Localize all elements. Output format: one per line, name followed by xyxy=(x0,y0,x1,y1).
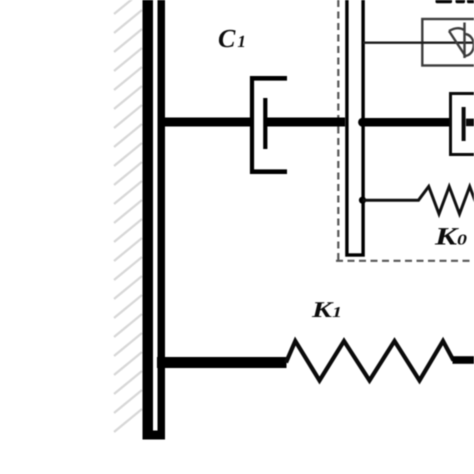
Bouc-Wen hysteresis symbol xyxy=(449,23,474,59)
spring K0 xyxy=(363,187,474,215)
rigid bar (internal node of model) xyxy=(347,0,363,255)
wall hatching xyxy=(114,0,142,432)
svg-text:C1: C1 xyxy=(218,24,246,53)
Bouc-Wen element box xyxy=(422,19,474,66)
damper C0 (piston, partially visible) xyxy=(464,107,474,141)
wire: rigid bar to Bouc-Wen box xyxy=(363,42,474,44)
node: junction dot for spring K0 xyxy=(359,197,366,204)
wire: wall to damper C1 xyxy=(161,118,253,127)
wire: rigid bar to damper C0 box xyxy=(361,118,450,127)
damper C1 xyxy=(250,76,287,174)
wall (fixed support, U-shaped double bar) xyxy=(143,0,166,440)
wire: wall to spring K1 xyxy=(157,357,287,368)
wire: spring K1 to right edge xyxy=(453,356,474,364)
svg-text:K1: K1 xyxy=(311,297,342,322)
damper C0 box xyxy=(451,94,474,155)
wire: damper C1 to rigid bar xyxy=(265,118,345,127)
node: junction dot on rigid bar xyxy=(358,118,367,127)
spring K1 xyxy=(286,341,454,381)
svg-text:K0: K0 xyxy=(434,224,468,251)
dashed model boundary (MR damper box) xyxy=(336,0,474,261)
label Bouc-Wen (cut off at top edge) xyxy=(436,0,474,3)
node: junction dot at wall for K1 xyxy=(157,359,165,367)
